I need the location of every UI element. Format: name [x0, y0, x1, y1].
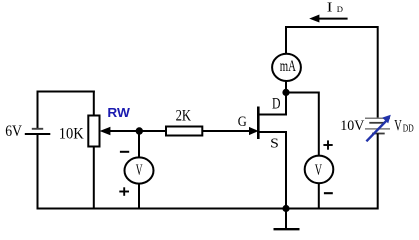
wire: wiper node to 2K resistor [139, 130, 166, 132]
wire: bottom rail [38, 208, 378, 210]
potentiometer wiper arrow [100, 127, 139, 135]
JFET source lead [258, 132, 286, 210]
JFET drain lead [258, 93, 286, 115]
current arrow ID [309, 15, 347, 23]
svg-text:V: V [136, 162, 143, 179]
voltmeter V1 (left) [125, 157, 154, 183]
JFET channel bar [257, 107, 260, 140]
node: ground junction [282, 205, 289, 212]
wire: drain node to right voltmeter [286, 93, 319, 156]
wire: wiper node to left voltmeter [138, 131, 140, 158]
battery VDD 10V (two cells) [365, 118, 390, 133]
wire: 2K resistor to gate arrow [202, 130, 250, 132]
label I_D [327, 0, 343, 15]
wire: left rail upper (battery to top-left corner) [37, 92, 39, 129]
svg-text:I: I [327, 0, 333, 15]
potentiometer RW 10K body [88, 116, 99, 147]
wire: left rail lower (battery to bottom rail) [37, 134, 39, 210]
node: wiper junction [136, 127, 143, 134]
wire: potentiometer bottom lead [93, 147, 95, 210]
battery 6V [25, 129, 51, 134]
svg-text:2K: 2K [176, 107, 192, 125]
ground [274, 209, 300, 230]
svg-text:V: V [315, 162, 323, 179]
wire: potentiometer top lead [93, 91, 95, 116]
wire: right voltmeter bottom lead [318, 183, 320, 209]
variable-source blue arrow [366, 115, 390, 142]
wire: left voltmeter bottom lead [138, 183, 140, 209]
svg-text:RW: RW [107, 105, 130, 120]
svg-text:S: S [270, 136, 279, 151]
wire: top-left loop horizontal [37, 91, 95, 93]
svg-text:D: D [272, 96, 281, 113]
label VDD [394, 118, 414, 135]
svg-text:10V: 10V [340, 118, 364, 134]
wire: drain node to milliammeter [285, 81, 287, 93]
milliammeter mA [272, 54, 301, 81]
polarity label + (left voltmeter) [119, 187, 129, 196]
resistor 2K body [166, 127, 202, 136]
polarity label + (right voltmeter) [323, 140, 332, 149]
gate arrowhead of JFET [249, 127, 259, 135]
node: drain junction D [282, 89, 289, 96]
polarity label - (right voltmeter) [324, 192, 333, 194]
voltmeter V2 (right) [305, 156, 334, 184]
wire: top rail [285, 26, 378, 28]
wire: milliammeter top lead [285, 26, 287, 54]
svg-text:V: V [394, 118, 402, 135]
svg-text:10K: 10K [59, 125, 84, 143]
wire: right rail upper (top rail to VDD battery) [377, 26, 379, 118]
polarity label - (left voltmeter) [120, 151, 129, 153]
wire: right rail lower (VDD battery to bottom rail) [377, 134, 379, 210]
svg-text:G: G [238, 114, 247, 130]
svg-text:D: D [337, 4, 343, 14]
svg-text:mA: mA [280, 58, 297, 75]
svg-text:DD: DD [403, 124, 414, 135]
svg-text:6V: 6V [5, 123, 22, 140]
